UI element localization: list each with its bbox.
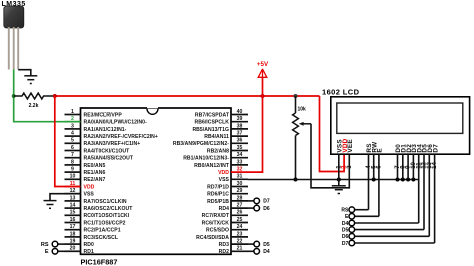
svg-text:RC6/TX/CK: RC6/TX/CK — [202, 220, 230, 226]
svg-text:34: 34 — [237, 152, 243, 158]
LCD pin 3 wire — [347, 165, 353, 169]
svg-text:D7: D7 — [342, 241, 349, 247]
svg-text:D5: D5 — [263, 242, 270, 248]
terminal D6 (PIC side) — [248, 205, 270, 212]
pin 9 stub (left) — [65, 167, 106, 177]
svg-text:22: 22 — [237, 239, 243, 245]
svg-text:RC1/T1OSI/CCP2: RC1/T1OSI/CCP2 — [84, 220, 126, 226]
svg-text:RA2/AN2/VREF-/CVREF/C2IN+: RA2/AN2/VREF-/CVREF/C2IN+ — [84, 134, 158, 140]
svg-text:40: 40 — [237, 109, 243, 115]
svg-text:RA4/T0CKI/C1OUT: RA4/T0CKI/C1OUT — [84, 148, 131, 154]
junction node bus/LCD pin7 — [396, 178, 400, 182]
svg-text:VEE: VEE — [347, 139, 354, 153]
LCD LCD1 screen — [337, 103, 463, 133]
svg-text:25: 25 — [237, 217, 243, 223]
junction node bus/LCD pin8 — [401, 178, 405, 182]
pin 32 stub (right) — [218, 167, 248, 177]
terminal D5 (LCD side) — [342, 227, 355, 234]
wire VDD to pin 11 (red) — [55, 96, 81, 187]
pin 20 stub (left) — [65, 246, 94, 256]
LCD LCD1 outer body — [331, 97, 470, 154]
ground (pin 12) — [44, 201, 57, 209]
pin 38 stub (right) — [192, 123, 248, 133]
svg-text:RB7/ICSPDAT: RB7/ICSPDAT — [195, 112, 230, 118]
svg-text:1: 1 — [71, 109, 74, 115]
svg-text:RA3/AN3/VREF+/C1IN+: RA3/AN3/VREF+/C1IN+ — [84, 141, 141, 147]
svg-text:D7: D7 — [432, 144, 439, 153]
junction node bus/LCD pin10 — [411, 178, 415, 182]
svg-text:37: 37 — [237, 131, 243, 137]
pin 30 stub (right) — [207, 181, 248, 191]
svg-text:RS: RS — [341, 208, 349, 214]
wire LCD pin6 E down — [354, 215, 379, 217]
svg-text:E: E — [45, 249, 49, 255]
LCD pin 6 wire — [377, 154, 383, 216]
pin 10 stub (left) — [65, 174, 106, 184]
wire LCD pin13 D6 down — [354, 235, 429, 237]
svg-text:RB0/AN12/INT: RB0/AN12/INT — [194, 163, 230, 169]
svg-text:14: 14 — [432, 161, 438, 168]
pin 25 stub (right) — [202, 217, 248, 227]
svg-text:RD4: RD4 — [219, 206, 229, 212]
svg-text:26: 26 — [237, 210, 243, 216]
LM335 lead 3 — [17, 27, 19, 70]
pin 39 stub (right) — [194, 116, 248, 126]
terminal D5 (PIC side) — [248, 241, 270, 248]
svg-text:33: 33 — [237, 159, 243, 165]
pin 26 stub (right) — [202, 210, 248, 220]
pin 17 stub (left) — [65, 224, 121, 234]
wire (green) LM335 pin2 to RA0 — [14, 70, 81, 122]
svg-text:16: 16 — [70, 217, 76, 223]
pin 4 stub (left) — [65, 131, 158, 141]
junction node rail/+5V — [261, 94, 265, 98]
svg-text:4: 4 — [71, 131, 74, 137]
LCD pin 14 wire — [432, 154, 438, 243]
svg-text:29: 29 — [237, 188, 243, 194]
svg-text:RC5/SDO: RC5/SDO — [206, 228, 229, 234]
terminal D4 (LCD side) — [342, 220, 355, 227]
svg-text:PIC16F887: PIC16F887 — [81, 258, 118, 266]
svg-text:+5V: +5V — [257, 61, 269, 68]
pin 18 stub (left) — [65, 231, 119, 241]
pin 15 stub (left) — [65, 210, 130, 220]
pin 27 stub (right) — [219, 203, 248, 213]
pin 3 stub (left) — [65, 123, 127, 133]
svg-text:RB6/ICSPCLK: RB6/ICSPCLK — [194, 120, 229, 126]
pin 33 stub (right) — [194, 159, 248, 169]
svg-text:6: 6 — [71, 145, 74, 151]
svg-text:24: 24 — [237, 224, 243, 230]
svg-text:RE3/MCLR/VPP: RE3/MCLR/VPP — [84, 112, 123, 118]
svg-text:RA1/AN1/C12IN1-: RA1/AN1/C12IN1- — [84, 127, 127, 133]
wire pin12 VSS to ground — [50, 194, 81, 201]
svg-text:17: 17 — [70, 224, 76, 230]
svg-text:1602 LCD: 1602 LCD — [322, 88, 360, 97]
svg-text:RD3: RD3 — [219, 242, 229, 248]
svg-text:RA7/OSC1/CLKIN: RA7/OSC1/CLKIN — [84, 199, 127, 205]
svg-text:20: 20 — [70, 246, 76, 252]
svg-text:3: 3 — [71, 123, 74, 129]
svg-text:35: 35 — [237, 145, 243, 151]
svg-text:RE2/AN7: RE2/AN7 — [84, 177, 106, 183]
svg-text:30: 30 — [237, 181, 243, 187]
svg-text:D7: D7 — [263, 199, 270, 205]
LCD pin 13 wire — [427, 154, 433, 236]
svg-text:RC4/SDI/SDA: RC4/SDI/SDA — [196, 235, 229, 241]
ground (LCD) — [332, 186, 346, 194]
LCD pin 9 wire — [406, 154, 412, 179]
svg-text:39: 39 — [237, 116, 243, 122]
svg-text:RA5/AN4/SS/C2OUT: RA5/AN4/SS/C2OUT — [84, 156, 134, 162]
svg-text:RB5/AN13/T1G: RB5/AN13/T1G — [192, 127, 229, 133]
LCD pin 8 wire — [400, 154, 406, 179]
svg-text:RD0: RD0 — [84, 242, 94, 248]
svg-text:D4: D4 — [342, 221, 349, 227]
wire +5V rail (red) — [55, 95, 320, 97]
terminal D7 (LCD side) — [342, 240, 355, 247]
pin 24 stub (right) — [206, 224, 248, 234]
svg-text:RD1: RD1 — [84, 249, 94, 255]
pin 19 stub (left) — [65, 239, 94, 249]
wire LCD pin4 RS down — [354, 209, 368, 211]
IC U1 PIC16F887 body — [81, 108, 232, 254]
svg-text:RA6/OSC2/CLKOUT: RA6/OSC2/CLKOUT — [84, 206, 134, 212]
svg-text:2: 2 — [71, 116, 74, 122]
power symbol +5V — [257, 61, 269, 77]
svg-text:RC7/RX/DT: RC7/RX/DT — [202, 213, 230, 219]
pin 2 stub (left) — [65, 116, 148, 126]
svg-text:10: 10 — [70, 174, 76, 180]
wire LCD VSS to ground — [338, 180, 340, 186]
junction node (green) at resistor — [12, 94, 16, 98]
potentiometer RV1 wiper — [299, 122, 311, 126]
junction node rail/resistor — [53, 94, 57, 98]
svg-text:38: 38 — [237, 123, 243, 129]
potentiometer RV1 top lead — [295, 96, 297, 113]
terminal E (left) — [45, 249, 65, 256]
pin 28 stub (right) — [207, 195, 248, 205]
svg-text:23: 23 — [237, 231, 243, 237]
svg-text:31: 31 — [237, 174, 243, 180]
pin 6 stub (left) — [65, 145, 131, 155]
svg-text:13: 13 — [70, 195, 76, 201]
svg-text:RA0/AN0/ULPWU/C12IN0-: RA0/AN0/ULPWU/C12IN0- — [84, 120, 148, 126]
svg-text:VSS: VSS — [219, 177, 230, 183]
LCD pin 12 wire — [422, 154, 428, 229]
potentiometer RV1 10k — [293, 113, 299, 136]
terminal D7 (PIC side) — [248, 198, 270, 205]
junction node pot/ground bus — [294, 178, 298, 182]
svg-text:RD5/P1B: RD5/P1B — [207, 199, 229, 205]
svg-text:18: 18 — [70, 231, 76, 237]
wire LCD pin11 D4 down — [354, 222, 418, 224]
LCD pin 11 wire — [416, 154, 422, 223]
svg-text:RE1/AN6: RE1/AN6 — [84, 170, 106, 176]
svg-text:RB2/AN8: RB2/AN8 — [207, 148, 229, 154]
IC U1 notch — [147, 109, 158, 115]
wire LM335 pin3 to ground — [18, 70, 31, 76]
pin 7 stub (left) — [65, 152, 134, 162]
svg-text:11: 11 — [70, 181, 76, 187]
junction node bus/LCD pin9 — [406, 178, 410, 182]
LCD pin 7 wire — [395, 154, 401, 179]
pin 37 stub (right) — [204, 131, 248, 141]
svg-text:9: 9 — [71, 167, 74, 173]
wire +5V to LCD VDD (red) — [320, 96, 345, 172]
svg-text:RB3/AN9/PGM/C12IN2-: RB3/AN9/PGM/C12IN2- — [173, 141, 229, 147]
svg-text:D5: D5 — [342, 227, 349, 233]
svg-text:7: 7 — [71, 152, 74, 158]
svg-text:8: 8 — [71, 159, 74, 165]
pin 31 stub (right) — [219, 174, 248, 184]
junction node bus/LCD pin5 — [372, 178, 376, 182]
svg-text:VDD: VDD — [218, 170, 229, 176]
LCD pin 4 wire — [366, 154, 372, 210]
svg-text:RC0/T1OSO/T1CKI: RC0/T1OSO/T1CKI — [84, 213, 130, 219]
LM335 lead 1 — [8, 27, 10, 70]
LCD pin 5 wire — [371, 154, 377, 179]
svg-text:D4: D4 — [263, 249, 270, 255]
svg-text:RE0/AN5: RE0/AN5 — [84, 163, 106, 169]
svg-text:D6: D6 — [342, 234, 349, 240]
svg-text:19: 19 — [70, 239, 76, 245]
junction node rail/pot — [294, 94, 298, 98]
svg-text:VSS: VSS — [84, 192, 95, 198]
svg-text:15: 15 — [70, 210, 76, 216]
LM335 lead 2 — [13, 27, 15, 70]
pin 12 stub (left) — [65, 188, 95, 198]
svg-text:2.2k: 2.2k — [29, 103, 39, 109]
svg-text:VDD: VDD — [84, 184, 95, 190]
pin 13 stub (left) — [65, 195, 127, 205]
terminal RS (LCD side) — [341, 207, 354, 214]
wire ground bus from pin 31 VSS — [248, 179, 419, 181]
svg-text:RC3/SCK/SCL: RC3/SCK/SCL — [84, 235, 119, 241]
svg-text:RC2/P1A/CCP1: RC2/P1A/CCP1 — [84, 228, 121, 234]
svg-text:10k: 10k — [298, 107, 307, 113]
pin 22 stub (right) — [219, 239, 248, 249]
svg-text:27: 27 — [237, 203, 243, 209]
svg-text:E: E — [377, 148, 384, 153]
LCD pin 10 wire — [411, 154, 417, 179]
junction node bus/LCD pin1 — [337, 178, 341, 182]
pin 11 stub (left) — [65, 181, 95, 191]
svg-text:21: 21 — [237, 246, 243, 252]
svg-text:RD6/P1C: RD6/P1C — [207, 192, 229, 198]
svg-text:36: 36 — [237, 138, 243, 144]
pin 16 stub (left) — [65, 217, 126, 227]
svg-text:5: 5 — [71, 138, 74, 144]
pin 1 stub (left) — [65, 109, 123, 119]
sensor U2 LM335 body — [4, 6, 24, 28]
pin 21 stub (right) — [219, 246, 248, 256]
potentiometer RV1 bottom lead to ground bus — [295, 136, 297, 180]
LCD pin 2 wire — [342, 165, 348, 169]
svg-text:D6: D6 — [263, 206, 270, 212]
svg-text:RD7/P1D: RD7/P1D — [207, 184, 229, 190]
svg-text:28: 28 — [237, 195, 243, 201]
pin 23 stub (right) — [196, 231, 248, 241]
svg-text:RB1/AN10/C12IN3-: RB1/AN10/C12IN3- — [183, 156, 229, 162]
pin 14 stub (left) — [65, 203, 134, 213]
terminal D6 (LCD side) — [342, 234, 355, 241]
terminal RS (left) — [41, 241, 65, 248]
pin 40 stub (right) — [195, 109, 248, 119]
pin 35 stub (right) — [207, 145, 248, 155]
LCD pin 1 wire — [336, 154, 342, 179]
svg-text:RD2: RD2 — [219, 249, 229, 255]
pin 36 stub (right) — [173, 138, 248, 148]
svg-text:14: 14 — [70, 203, 76, 209]
wire LCD pin12 D5 down — [354, 229, 424, 231]
wire wiper to LCD VEE — [311, 124, 349, 188]
terminal E (LCD side) — [345, 214, 355, 221]
wire LCD pin14 D7 down — [354, 242, 434, 244]
svg-text:RB4/AN11: RB4/AN11 — [204, 134, 229, 140]
pin 8 stub (left) — [65, 159, 106, 169]
terminal D4 (PIC side) — [248, 249, 270, 256]
wire +5V stem to pin 32 (red) — [248, 78, 263, 172]
resistor R1 2.2k — [14, 93, 55, 99]
pin 5 stub (left) — [65, 138, 141, 148]
svg-text:32: 32 — [237, 167, 243, 173]
pin 34 stub (right) — [183, 152, 248, 162]
ground (LM335) — [24, 76, 37, 84]
pin 29 stub (right) — [207, 188, 248, 198]
svg-text:RS: RS — [41, 242, 49, 248]
